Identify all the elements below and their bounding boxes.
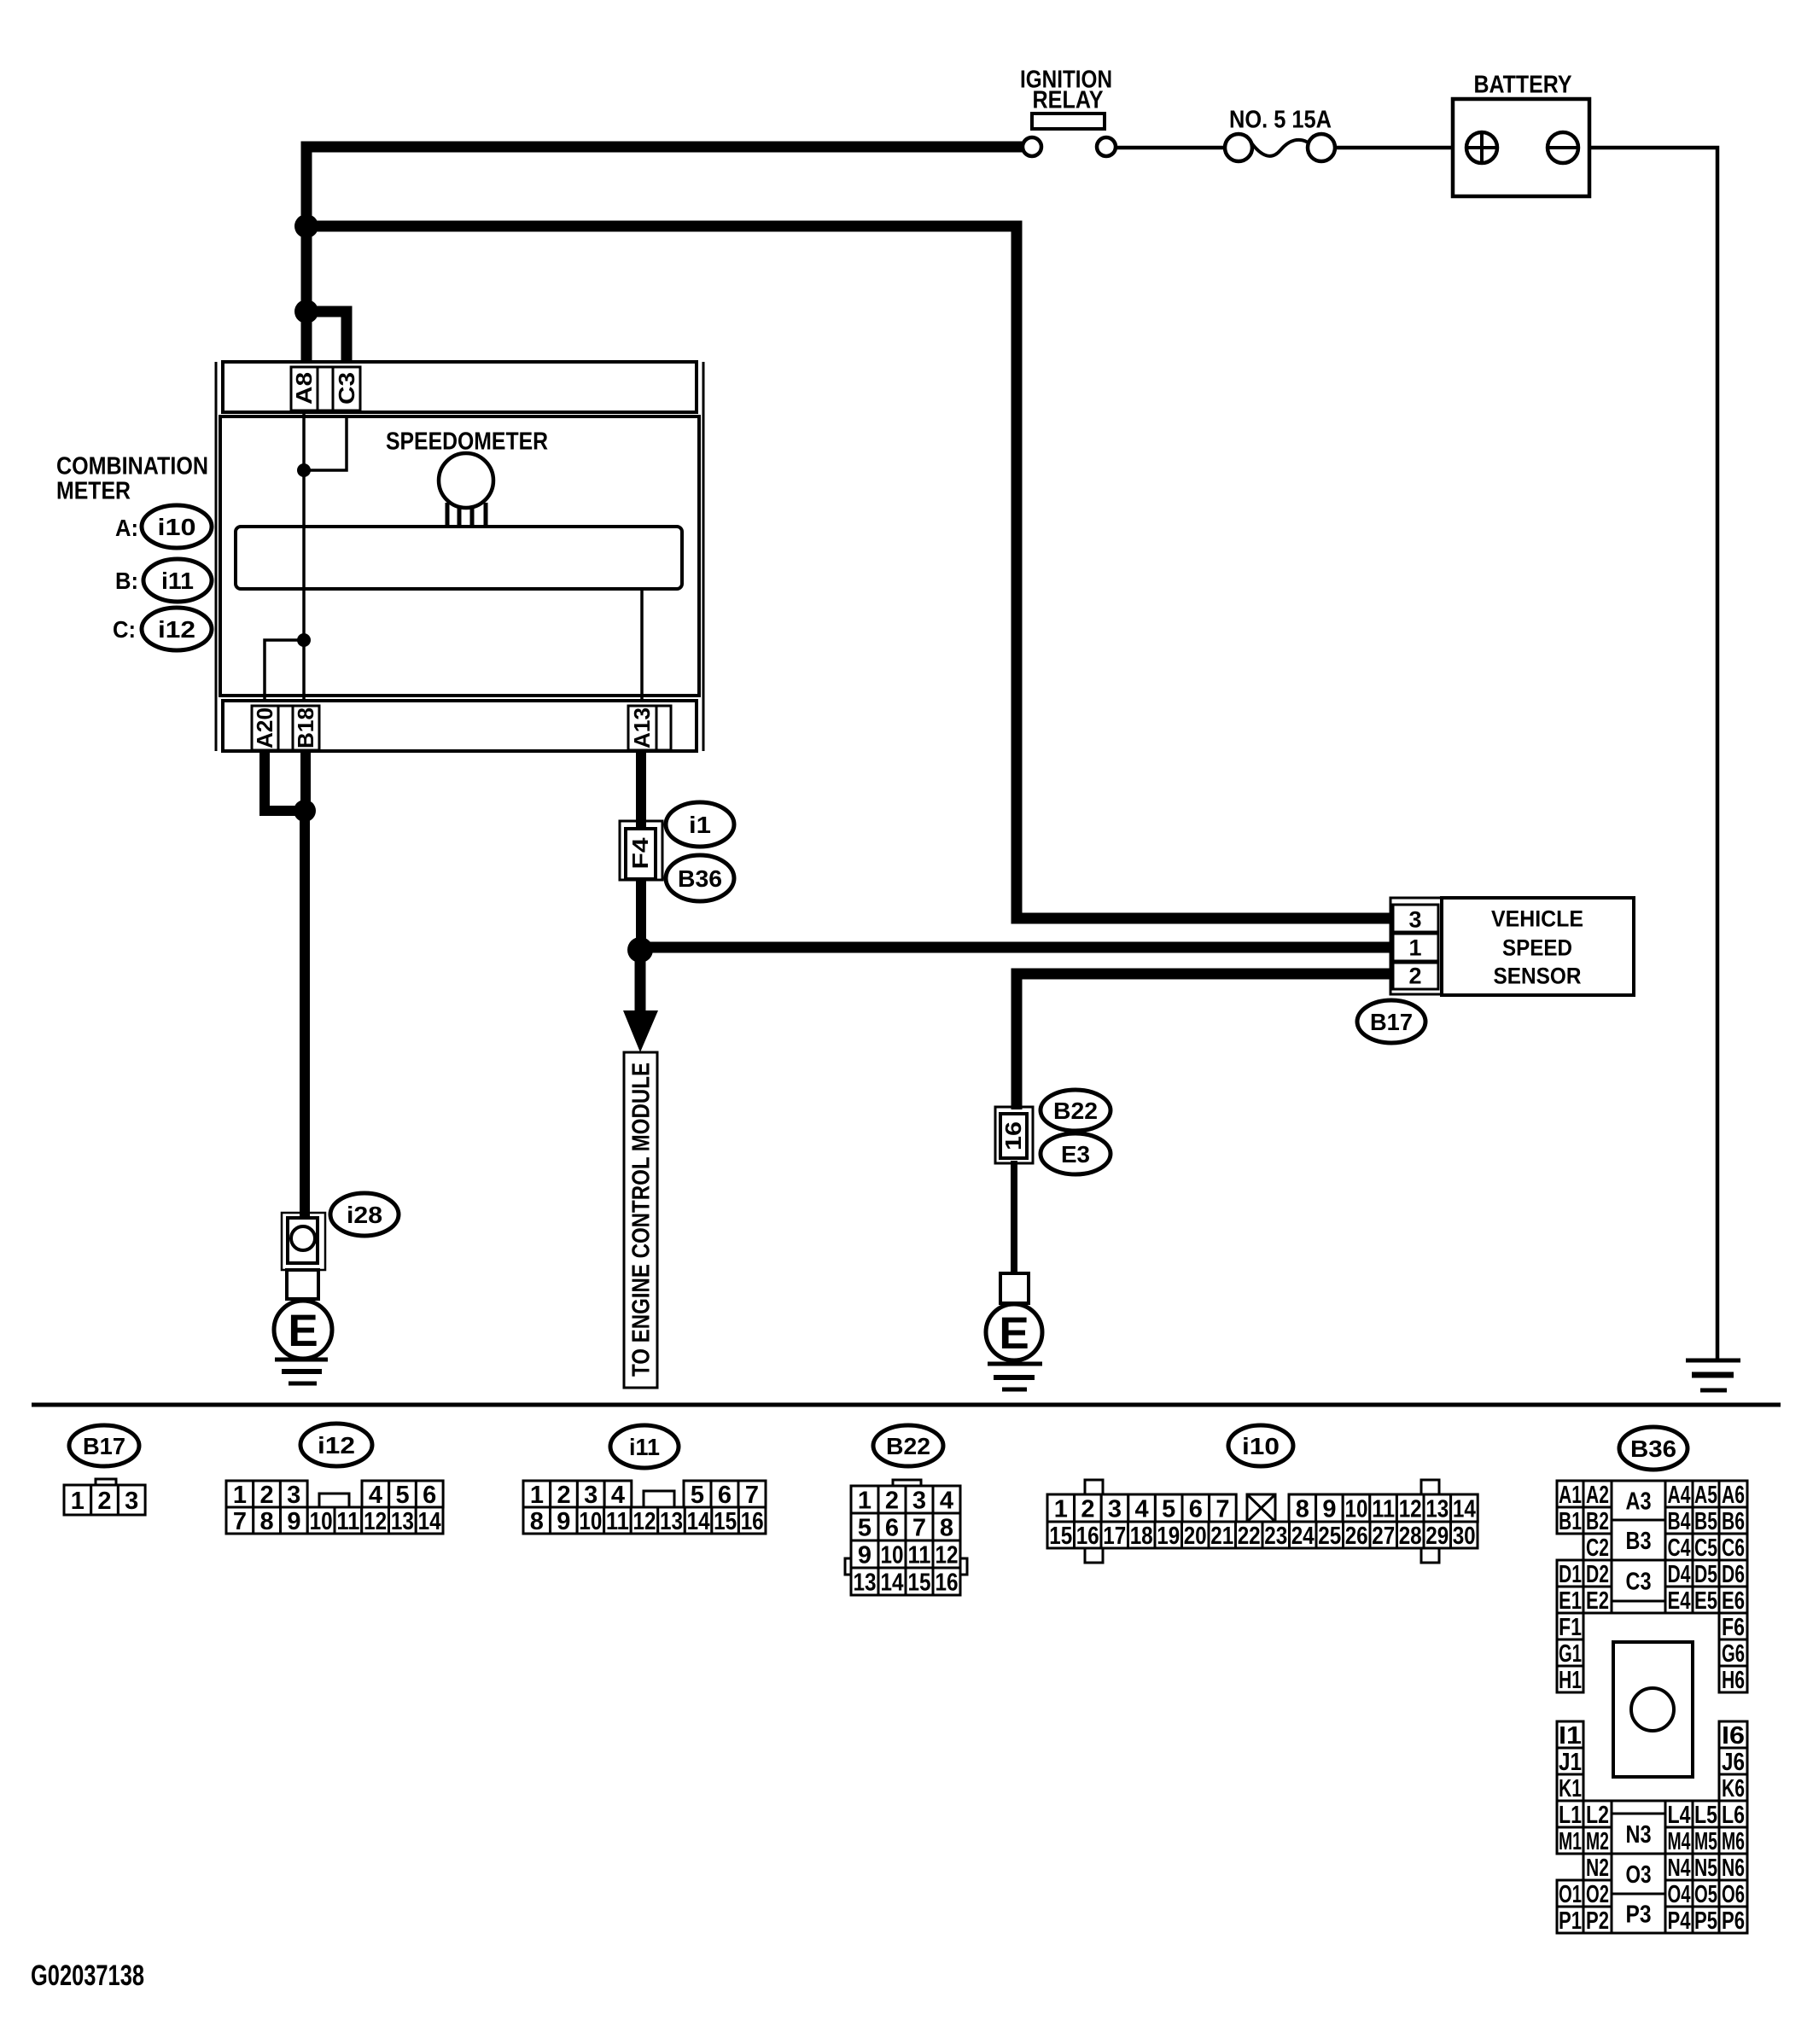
svg-text:F4: F4 — [627, 837, 653, 870]
svg-text:P1: P1 — [1559, 1907, 1582, 1935]
wire: relay contact to fuse — [1116, 146, 1226, 150]
svg-text:A:: A: — [115, 515, 138, 541]
svg-text:L1: L1 — [1559, 1802, 1582, 1829]
svg-text:9: 9 — [1322, 1495, 1336, 1523]
sensor B17: VEHICLE SPEED SENSOR — [1442, 898, 1634, 995]
battery BATTERY — [1453, 71, 1589, 196]
svg-text:VEHICLE: VEHICLE — [1491, 906, 1583, 932]
svg-text:i10: i10 — [158, 514, 196, 540]
node label B: connector i11 — [115, 559, 212, 602]
svg-text:J6: J6 — [1722, 1749, 1745, 1776]
svg-text:J1: J1 — [1559, 1749, 1582, 1776]
svg-text:B22: B22 — [1053, 1098, 1098, 1124]
node: junction of A8 drop and VSS rail — [294, 214, 318, 238]
svg-text:F6: F6 — [1722, 1614, 1745, 1641]
wire: speed signal from junction to VSS pin 1 — [640, 942, 1400, 953]
svg-text:B2: B2 — [1586, 1508, 1609, 1535]
svg-text:C2: C2 — [1586, 1534, 1609, 1562]
svg-text:D6: D6 — [1722, 1561, 1745, 1588]
svg-text:O3: O3 — [1626, 1861, 1652, 1889]
svg-text:M2: M2 — [1586, 1828, 1609, 1855]
svg-text:C:: C: — [113, 616, 136, 643]
pin 1 (VSS) — [1393, 934, 1438, 961]
svg-text:M6: M6 — [1722, 1828, 1745, 1855]
connector view i12 designator — [300, 1424, 372, 1466]
svg-text:9: 9 — [858, 1541, 872, 1569]
wire: combination meter A20 drop — [265, 751, 305, 811]
pin A8 — [291, 367, 318, 411]
svg-text:i1: i1 — [689, 812, 711, 838]
svg-text:K6: K6 — [1722, 1775, 1745, 1802]
svg-text:2: 2 — [260, 1482, 274, 1509]
svg-text:A6: A6 — [1722, 1482, 1745, 1509]
svg-text:16: 16 — [936, 1569, 959, 1596]
svg-text:F1: F1 — [1559, 1614, 1582, 1641]
svg-text:20: 20 — [1184, 1523, 1207, 1550]
svg-text:1: 1 — [1054, 1495, 1068, 1523]
svg-text:B4: B4 — [1668, 1508, 1691, 1535]
svg-text:E4: E4 — [1668, 1587, 1691, 1615]
value label: NO. 5 15A — [1229, 106, 1332, 133]
svg-text:2: 2 — [1081, 1495, 1094, 1523]
svg-text:3: 3 — [1408, 907, 1421, 933]
wire: ignition hot rail from relay contact to combination meter A8 — [306, 147, 1023, 367]
svg-text:6: 6 — [885, 1514, 899, 1541]
wire: combination meter A13 down through joint connector F4 to junction — [636, 751, 646, 950]
connector view B17 (3 pins) — [64, 1479, 145, 1515]
svg-text:16: 16 — [1000, 1121, 1026, 1150]
svg-text:I6: I6 — [1722, 1722, 1745, 1750]
connector view B17 designator — [69, 1425, 139, 1466]
svg-text:14: 14 — [881, 1569, 904, 1596]
svg-text:B:: B: — [115, 568, 138, 594]
ground body E (right) — [986, 1304, 1042, 1360]
svg-text:22: 22 — [1238, 1523, 1261, 1550]
svg-text:N6: N6 — [1722, 1855, 1745, 1882]
ground body E (left) — [274, 1301, 332, 1359]
wire: internal branch to C3 — [304, 416, 347, 470]
svg-text:A3: A3 — [1626, 1488, 1652, 1515]
svg-text:C4: C4 — [1668, 1534, 1691, 1562]
connector view i10 (30 pins) — [1047, 1480, 1478, 1563]
svg-text:D4: D4 — [1668, 1561, 1691, 1588]
svg-text:5: 5 — [691, 1482, 704, 1509]
svg-text:7: 7 — [1215, 1495, 1229, 1523]
svg-text:C5: C5 — [1694, 1534, 1717, 1562]
svg-text:4: 4 — [611, 1482, 625, 1509]
svg-text:C3: C3 — [334, 372, 359, 405]
pin C3 — [333, 367, 360, 411]
speedometer internal block — [236, 527, 682, 589]
svg-text:11: 11 — [606, 1508, 629, 1535]
node label A: connector i10 — [115, 505, 212, 548]
svg-text:E: E — [999, 1308, 1029, 1359]
svg-text:N2: N2 — [1586, 1855, 1609, 1882]
pin A20 — [252, 706, 278, 750]
node: junction of A8 drop and C3 branch — [294, 300, 318, 323]
relay K1: IGNITION RELAY label — [1020, 66, 1112, 114]
svg-text:I1: I1 — [1559, 1722, 1582, 1750]
connector view i10 designator — [1228, 1425, 1293, 1466]
combination meter caption — [56, 452, 208, 504]
svg-text:i12: i12 — [158, 616, 195, 643]
svg-text:23: 23 — [1264, 1523, 1287, 1550]
svg-text:M1: M1 — [1559, 1828, 1582, 1855]
figure number G02037138 — [31, 1960, 144, 1992]
svg-text:B36: B36 — [1630, 1435, 1676, 1462]
svg-text:L4: L4 — [1668, 1802, 1691, 1829]
svg-text:4: 4 — [1135, 1495, 1149, 1523]
svg-text:3: 3 — [1108, 1495, 1122, 1523]
svg-text:3: 3 — [912, 1487, 926, 1514]
svg-text:L2: L2 — [1586, 1802, 1609, 1829]
svg-text:E5: E5 — [1694, 1587, 1717, 1615]
pin 2 (VSS) — [1393, 963, 1438, 989]
svg-text:16: 16 — [1076, 1523, 1099, 1550]
svg-text:A20: A20 — [252, 708, 277, 748]
svg-text:11: 11 — [1372, 1495, 1395, 1523]
svg-text:17: 17 — [1103, 1523, 1126, 1550]
node: internal junction at C3 branch — [297, 463, 311, 477]
svg-text:P3: P3 — [1626, 1901, 1652, 1928]
svg-text:13: 13 — [660, 1508, 683, 1535]
combination meter connector strip (top) — [223, 362, 697, 412]
svg-text:E6: E6 — [1722, 1587, 1745, 1615]
svg-text:B36: B36 — [678, 865, 722, 892]
speedometer label — [386, 428, 548, 455]
wire: battery negative to chassis ground — [1577, 148, 1717, 1359]
connector view B36 designator — [1619, 1427, 1688, 1470]
svg-text:COMBINATION: COMBINATION — [56, 452, 208, 480]
svg-text:12: 12 — [936, 1541, 959, 1569]
svg-text:1: 1 — [858, 1487, 872, 1514]
svg-text:15: 15 — [1049, 1523, 1072, 1550]
wire: meter ground wire down to connector i28 — [300, 811, 310, 1216]
ground symbol (right) — [988, 1364, 1042, 1389]
wire: below connector 16 to ground terminal — [1011, 1161, 1017, 1277]
relay K1: contact terminals — [1023, 137, 1116, 156]
svg-text:2: 2 — [1408, 964, 1421, 989]
svg-text:18: 18 — [1130, 1523, 1153, 1550]
svg-text:B5: B5 — [1694, 1508, 1717, 1535]
svg-text:6: 6 — [423, 1482, 436, 1509]
svg-text:NO. 5 15A: NO. 5 15A — [1229, 106, 1332, 133]
svg-text:3: 3 — [584, 1482, 598, 1509]
svg-text:10: 10 — [579, 1508, 602, 1535]
ground terminal (E3) — [1000, 1273, 1029, 1303]
svg-text:14: 14 — [687, 1508, 710, 1535]
svg-text:21: 21 — [1210, 1523, 1233, 1550]
ground symbol (left) — [275, 1360, 328, 1383]
svg-text:E: E — [288, 1306, 318, 1356]
wire: arrow to engine control module — [623, 950, 658, 1052]
svg-text:8: 8 — [260, 1508, 274, 1535]
svg-text:D5: D5 — [1694, 1561, 1717, 1588]
svg-text:N5: N5 — [1694, 1855, 1717, 1882]
node: junction of A13 wire, VSS pin 1 wire and ECM branch — [627, 937, 653, 963]
svg-text:O2: O2 — [1586, 1881, 1609, 1908]
connector view B22 designator — [873, 1425, 943, 1466]
svg-text:B18: B18 — [293, 708, 318, 748]
svg-text:28: 28 — [1399, 1523, 1422, 1550]
svg-text:i12: i12 — [318, 1432, 355, 1459]
svg-text:8: 8 — [940, 1514, 953, 1541]
svg-text:10: 10 — [310, 1508, 333, 1535]
svg-text:14: 14 — [1453, 1495, 1476, 1523]
combination meter body — [220, 416, 699, 696]
fuse NO.5 15A — [1225, 134, 1335, 161]
connector F4 (joint connector) — [620, 821, 662, 880]
svg-text:E2: E2 — [1586, 1587, 1609, 1615]
svg-text:8: 8 — [530, 1508, 544, 1535]
svg-text:i10: i10 — [1242, 1433, 1280, 1459]
svg-text:8: 8 — [1296, 1495, 1309, 1523]
svg-text:6: 6 — [1189, 1495, 1203, 1523]
connector view i11 designator — [610, 1425, 679, 1468]
svg-text:1: 1 — [233, 1482, 247, 1509]
svg-text:3: 3 — [125, 1488, 138, 1515]
wire: VSS pin 2 ground wire down to connector E3/B22 — [1017, 974, 1400, 1109]
svg-text:12: 12 — [1399, 1495, 1422, 1523]
svg-text:1: 1 — [530, 1482, 544, 1509]
svg-text:11: 11 — [336, 1508, 359, 1535]
svg-text:13: 13 — [854, 1569, 877, 1596]
node: internal junction at A20 branch — [297, 633, 311, 647]
wire: branch to combination meter C3 — [306, 312, 347, 367]
svg-text:O5: O5 — [1694, 1881, 1717, 1908]
svg-text:2: 2 — [557, 1482, 571, 1509]
connector shell of vehicle speed sensor — [1390, 898, 1442, 994]
combination meter outer side rails — [216, 362, 703, 751]
svg-text:A2: A2 — [1586, 1482, 1609, 1509]
svg-text:M5: M5 — [1694, 1828, 1717, 1855]
svg-text:2: 2 — [97, 1488, 111, 1515]
pin B18 — [293, 706, 319, 750]
ground terminal (i28) — [287, 1270, 318, 1299]
svg-text:29: 29 — [1425, 1523, 1449, 1550]
pin spacer right (bottom strip) — [656, 706, 671, 750]
svg-text:A1: A1 — [1559, 1482, 1582, 1509]
svg-text:B17: B17 — [83, 1433, 125, 1459]
svg-text:B6: B6 — [1722, 1508, 1745, 1535]
svg-text:10: 10 — [881, 1541, 904, 1569]
connector designator i28 — [330, 1193, 399, 1236]
wire: fuse to battery positive — [1334, 146, 1467, 150]
svg-text:19: 19 — [1157, 1523, 1180, 1550]
wire: battery feed rail to vehicle speed sensor pin 3 — [306, 226, 1400, 918]
svg-text:9: 9 — [287, 1508, 300, 1535]
connector designator B36 — [666, 855, 734, 901]
svg-text:N4: N4 — [1668, 1855, 1691, 1882]
ground symbol (battery return) — [1686, 1360, 1740, 1390]
svg-text:P2: P2 — [1586, 1907, 1609, 1935]
pin 3 (VSS) — [1393, 905, 1438, 933]
label box: TO ENGINE CONTROL MODULE — [624, 1052, 657, 1388]
svg-text:SPEED: SPEED — [1502, 935, 1572, 961]
svg-text:D2: D2 — [1586, 1561, 1609, 1588]
svg-text:3: 3 — [287, 1482, 300, 1509]
svg-text:P5: P5 — [1694, 1907, 1717, 1935]
connector view i12 (14 pins) — [226, 1481, 443, 1535]
connector view B22 (16 pins) — [845, 1480, 967, 1596]
connector view i11 (16 pins) — [523, 1481, 766, 1535]
svg-text:B1: B1 — [1559, 1508, 1582, 1535]
svg-text:14: 14 — [418, 1508, 441, 1535]
connector designator i1 — [666, 802, 734, 847]
svg-text:2: 2 — [885, 1487, 899, 1514]
svg-text:A8: A8 — [291, 372, 317, 405]
pin A13 — [628, 706, 656, 750]
svg-text:L5: L5 — [1694, 1802, 1717, 1829]
svg-text:4: 4 — [369, 1482, 382, 1509]
svg-text:13: 13 — [391, 1508, 414, 1535]
svg-text:C3: C3 — [1626, 1568, 1652, 1595]
svg-text:RELAY: RELAY — [1033, 86, 1104, 114]
pin spacer (bottom strip) — [278, 706, 293, 750]
node: junction of A20 and B18 ground wires — [294, 800, 316, 822]
svg-text:O6: O6 — [1722, 1881, 1745, 1908]
svg-text:SENSOR: SENSOR — [1494, 964, 1582, 989]
svg-text:E3: E3 — [1061, 1141, 1090, 1168]
svg-text:5: 5 — [858, 1514, 872, 1541]
wire: internal branch to A20 — [265, 640, 304, 701]
svg-text:C6: C6 — [1722, 1534, 1745, 1562]
svg-text:A4: A4 — [1668, 1482, 1691, 1509]
svg-text:D1: D1 — [1559, 1561, 1582, 1588]
svg-text:G1: G1 — [1559, 1640, 1582, 1668]
connector 16 — [995, 1107, 1033, 1163]
svg-text:1: 1 — [1408, 935, 1421, 961]
combination meter connector strip (bottom) — [223, 701, 697, 751]
svg-text:N3: N3 — [1626, 1821, 1652, 1849]
svg-text:24: 24 — [1291, 1523, 1315, 1550]
svg-text:i11: i11 — [161, 568, 194, 594]
svg-text:i28: i28 — [347, 1202, 382, 1228]
svg-text:26: 26 — [1345, 1523, 1368, 1550]
connector view B36 (grid) — [1557, 1481, 1747, 1935]
svg-text:25: 25 — [1318, 1523, 1341, 1550]
speedometer movement (circle with legs) — [439, 453, 493, 528]
svg-text:16: 16 — [741, 1508, 764, 1535]
svg-text:1: 1 — [71, 1488, 85, 1515]
svg-text:L6: L6 — [1722, 1802, 1745, 1829]
svg-text:4: 4 — [940, 1487, 953, 1514]
svg-text:E1: E1 — [1559, 1587, 1582, 1615]
svg-text:30: 30 — [1453, 1523, 1476, 1550]
svg-text:TO ENGINE CONTROL MODULE: TO ENGINE CONTROL MODULE — [627, 1063, 655, 1377]
svg-text:METER: METER — [56, 477, 131, 504]
svg-text:i11: i11 — [629, 1434, 660, 1460]
connector designator B22 — [1041, 1090, 1111, 1131]
svg-text:SPEEDOMETER: SPEEDOMETER — [386, 428, 548, 455]
svg-text:A5: A5 — [1694, 1482, 1717, 1509]
svg-text:15: 15 — [714, 1508, 737, 1535]
svg-text:B22: B22 — [886, 1433, 930, 1459]
svg-text:O4: O4 — [1668, 1881, 1691, 1908]
svg-text:10: 10 — [1345, 1495, 1368, 1523]
separator line between schematic and connector views — [32, 1403, 1781, 1407]
svg-text:7: 7 — [233, 1508, 247, 1535]
svg-text:G02037138: G02037138 — [31, 1960, 144, 1992]
connector designator B17 — [1357, 1000, 1425, 1043]
svg-text:7: 7 — [745, 1482, 759, 1509]
svg-text:P4: P4 — [1668, 1907, 1691, 1935]
svg-text:K1: K1 — [1559, 1775, 1582, 1802]
svg-text:P6: P6 — [1722, 1907, 1745, 1935]
wire: internal speedometer to A13 — [640, 589, 644, 701]
svg-text:9: 9 — [557, 1508, 570, 1535]
svg-text:11: 11 — [908, 1541, 931, 1569]
connector designator E3 — [1041, 1133, 1111, 1174]
svg-text:B17: B17 — [1370, 1009, 1413, 1035]
svg-text:M4: M4 — [1668, 1828, 1691, 1855]
svg-text:H6: H6 — [1722, 1667, 1745, 1694]
svg-text:5: 5 — [396, 1482, 410, 1509]
svg-text:6: 6 — [718, 1482, 732, 1509]
svg-text:G6: G6 — [1722, 1640, 1745, 1668]
svg-text:27: 27 — [1372, 1523, 1395, 1550]
pin spacer (top strip) — [318, 367, 333, 411]
svg-text:O1: O1 — [1559, 1881, 1582, 1908]
svg-text:15: 15 — [908, 1569, 931, 1596]
svg-text:5: 5 — [1162, 1495, 1175, 1523]
svg-text:7: 7 — [912, 1514, 926, 1541]
svg-text:BATTERY: BATTERY — [1474, 71, 1572, 98]
svg-text:H1: H1 — [1559, 1667, 1582, 1694]
svg-text:A13: A13 — [629, 708, 655, 748]
relay K1: coil box — [1032, 114, 1105, 129]
wire: internal A8 to B18 — [302, 412, 306, 701]
wire: combination meter B18 drop — [300, 751, 311, 811]
node label C: connector i12 — [113, 608, 212, 650]
connector i28 — [282, 1213, 325, 1270]
svg-text:12: 12 — [633, 1508, 656, 1535]
svg-text:B3: B3 — [1626, 1528, 1652, 1555]
svg-text:12: 12 — [364, 1508, 387, 1535]
svg-text:13: 13 — [1425, 1495, 1449, 1523]
